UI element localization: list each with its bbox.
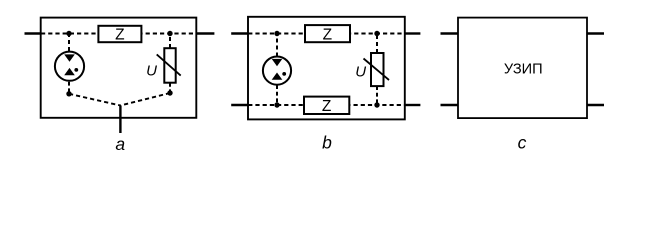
SPD assembly enclosure (block b): [248, 17, 405, 120]
wire: earthing conductor stub (block a): [119, 106, 121, 134]
wire: dashed internal bus, enclosure edge to Z (block a): [41, 33, 98, 35]
svg-text:U: U: [355, 64, 366, 81]
varistor RU2 (block b): [364, 53, 390, 86]
svg-text:c: c: [518, 132, 527, 152]
SPD unit box УЗИП (block c): [458, 18, 587, 119]
wire: dashed earth link from J3 (block a): [69, 94, 120, 106]
wire: neutral conductor out of block c (bottom right): [587, 104, 604, 106]
SPD assembly enclosure (block a): [41, 18, 197, 118]
wire: line conductor into block c (top left): [441, 32, 459, 34]
wire: dashed earth link from J4 (block a): [120, 93, 170, 106]
impedance Z2 box, top (block b): [305, 25, 350, 42]
wire: neutral conductor into block b (bottom left): [231, 104, 248, 106]
node: junction J2 on line (block a): [167, 31, 172, 36]
node: junction J8 bottom-right (block b): [374, 102, 379, 107]
wire: neutral conductor out of block b (bottom right): [405, 104, 421, 106]
svg-text:a: a: [115, 134, 125, 154]
wire: dashed drop J2 to varistor (block a): [169, 36, 171, 48]
surge arrester F2, gas discharge tube (block b): [263, 57, 291, 85]
wire: line conductor out of block a (right): [196, 32, 214, 34]
node: junction J4 below varistor (block a): [167, 90, 172, 95]
wire: dashed bottom bus, edge to Z3 (block b): [248, 104, 304, 106]
surge arrester F1, gas discharge tube (block a): [55, 52, 84, 81]
wire: line conductor into block a (left): [25, 32, 42, 34]
wire: line conductor into block b (top left): [231, 32, 248, 34]
node: junction J3 below arrester (block a): [66, 91, 71, 96]
svg-text:U: U: [146, 63, 157, 80]
wire: dashed link arrester to J7 (block b): [276, 85, 278, 105]
wire: line conductor out of block c (top right): [587, 32, 604, 34]
wire: dashed bottom bus, Z3 to right edge (block b): [349, 104, 405, 106]
wire: line conductor out of block b (top right): [405, 32, 421, 34]
svg-text:Z: Z: [322, 98, 331, 115]
node: junction J6 top-right (block b): [374, 31, 379, 36]
wire: dashed internal bus, Z to right enclosure edge (block a): [141, 33, 196, 35]
svg-text:b: b: [322, 133, 332, 153]
svg-text:Z: Z: [323, 26, 332, 43]
wire: dashed top bus, Z2 to right edge (block b): [350, 33, 405, 35]
svg-text:Z: Z: [115, 26, 124, 43]
wire: neutral conductor into block c (bottom left): [441, 104, 459, 106]
node: junction J7 bottom-left (block b): [274, 102, 279, 107]
node: junction J5 top-left (block b): [274, 31, 279, 36]
wire: dashed link arrester to J3 (block a): [68, 82, 70, 94]
wire: dashed drop J1 to arrester (block a): [68, 36, 70, 51]
impedance Z1 box (block a): [98, 26, 141, 42]
wire: dashed drop J6 to varistor (block b): [376, 36, 378, 53]
varistor RU1 (block a): [157, 48, 181, 82]
wire: dashed link varistor to J8 (block b): [376, 86, 378, 105]
impedance Z3 box, bottom (block b): [304, 97, 349, 114]
wire: dashed drop J5 to arrester (block b): [276, 36, 278, 57]
node: junction J1 on line (block a): [66, 31, 71, 36]
wire: dashed top bus, edge to Z2 (block b): [248, 33, 305, 35]
svg-text:УЗИП: УЗИП: [504, 62, 543, 78]
wire: varistor lead to J4 (block a): [169, 83, 171, 93]
